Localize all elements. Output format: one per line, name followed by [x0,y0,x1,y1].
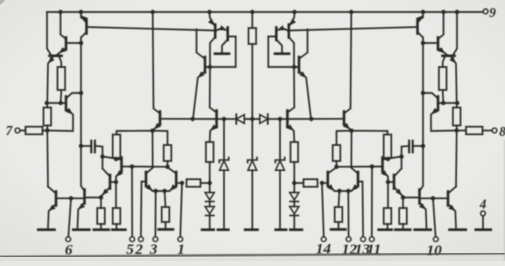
transistor Q17A base bar [215,111,218,128]
wire pin6 [68,198,71,236]
substrate bar Q15A [215,52,229,55]
wire pin8 to R3B [483,130,493,132]
transistor Q12B base bar [357,172,360,186]
junction Q13B base node [320,181,324,185]
diode D2A [205,207,214,215]
emitter arrow Q9A [117,171,123,176]
resistor R2A [44,108,52,126]
wire Q16A emitter [193,71,205,119]
emitter arrow Q2A [49,57,54,63]
wire Q9B emitter [383,171,389,208]
transistor Q9B base bar [381,158,384,172]
wire Q7B base to node [403,197,419,199]
capacitor C1B [412,141,414,153]
wire Q6B collector riser [455,131,458,187]
wire Q9A emitter [116,171,122,208]
scan smudge right edge [504,140,505,261]
transistor Q6B base bar [447,192,450,206]
junction base rail right B [441,101,445,105]
transistor Q7A base bar [83,190,86,204]
wire R9A right [201,182,210,184]
terminal pin 10 [433,237,438,242]
emitter arrow Q7B [420,204,426,209]
wire Q12B base to pin13 [359,182,364,237]
junction Q9A emitter / Q8A base [114,180,118,184]
wire R3A to node [43,130,48,132]
wire Q15B collector [276,40,282,53]
emitter arrow Q8B [396,189,402,195]
wire diode bus right [268,118,280,120]
wire Q4A emitter to rail [81,17,86,23]
wire pin14 [322,183,324,237]
wire Q17A base out [217,118,224,120]
wire Q15A collector [222,40,228,53]
junction Q11B emitter tap [309,117,313,121]
transistor Q2B shared base bar [443,54,455,57]
wire D2B to ground [293,216,295,229]
emitter arrow Q4A [82,16,88,21]
junction pin7 node A [45,128,49,132]
junction rail Q14A [207,10,211,14]
wire R7A bottom [167,161,169,167]
junction diode stack top A [208,181,212,185]
wire Q14A collector [210,37,215,67]
junction R5B bottom node [386,157,390,161]
terminal pin 6 [66,237,71,242]
transistor Q3B base bar [437,38,440,50]
ground bar center [245,228,257,231]
resistor R5A [113,135,121,159]
terminal pin 9 [483,9,488,14]
wire Q7A emitter [78,203,85,229]
transistor Q9A base bar [120,158,123,172]
resistor R8B [335,207,343,222]
diode D4 (points right) [260,115,268,124]
svg-text:9: 9 [489,5,496,20]
transistor Q17B base bar [286,111,289,128]
junction C1B right branch [399,154,403,158]
terminal pin 14 [321,237,326,242]
terminal pin 2 [139,237,144,242]
wire R2A top [46,103,48,108]
junction center diode bus [250,117,254,121]
terminal pin 7 [15,128,20,133]
junction rail Q14B [292,10,296,14]
scan speck top-left corner [0,0,5,5]
terminal pin 11 [369,237,374,242]
wire R4B top [402,198,404,209]
emitter arrow Q13A [170,185,176,191]
junction Q9B emitter / Q8B base [386,180,390,184]
resistor R7B [333,145,341,161]
emitter arrow Q3A [60,48,66,53]
wire R6B bottom [387,224,389,228]
ground bar R8B [331,228,345,231]
junction R8B tap [337,189,341,193]
emitter arrow Q9B [382,171,388,176]
wire Q4A base rail (long) [87,27,215,31]
wire node81 B upper [422,12,424,18]
junction x81 y93 B [421,91,425,95]
wire R4A bottom [100,224,102,228]
junction Q10B emitter node [349,129,353,133]
wire stack top B [293,183,295,193]
junction C1A right branch [100,154,104,158]
transistor Q8A base bar [109,175,112,189]
wire Q3B emitter [438,48,447,54]
resistor R9A [187,179,201,187]
wire C1A node to R5A bottom [103,157,117,159]
wire Q6A collector diag [48,187,56,194]
wire Q13A emitter [170,185,177,191]
emitter arrow Q17B [287,125,293,130]
wire Z1A top [223,119,225,159]
wire Q13A collector [168,167,177,174]
wire Q3B base to node [423,42,438,44]
emitter arrow Q12A [146,185,152,191]
junction pin7 node B [455,128,459,132]
wire diode bus left [224,118,236,120]
junction x81 cap node A [79,144,83,148]
transistor Q3A base bar [65,38,68,50]
wire Q6A-Q7A base link [57,197,84,199]
ground bar R6B [379,228,392,231]
resistor R2B [453,108,461,126]
emitter arrow Q3B [439,48,445,53]
junction Q10A emitter node [150,129,154,133]
wire C1B left [414,145,423,147]
zener Z2 (center) [248,157,257,162]
junction rail Q3B [441,10,445,14]
resistor R3B (pin8 series) [466,127,483,135]
wire Q8A base [111,181,117,183]
wire Q12B emitter [352,185,359,191]
wire pin3 [154,191,156,237]
resistor R10A [206,142,214,162]
resistor R8A [162,207,170,222]
emitter arrow Q15A [220,26,226,30]
wire C1A left [81,145,90,147]
diode D3 (points left) [236,115,244,124]
wire Z1A bottom [223,170,225,228]
transistor Q14A base bar [214,25,217,38]
wire diode bus center [244,118,259,120]
junction Q7A base node [99,195,103,199]
wire Q13A base [177,182,182,184]
emitter arrow Q5B [432,109,438,114]
wire Q15A emitter [216,28,227,30]
wire Q5A base rail [47,102,66,104]
wire center zener top [251,119,253,159]
wire y131 bus A [117,131,168,145]
wire Q17B base out [280,118,287,120]
junction rail Q10B [349,10,353,14]
emitter arrow Q12B [352,185,358,191]
junction rail x81 A [79,10,83,14]
transistor Q15A base bar [226,28,229,41]
resistor R3A (pin7 series) [26,127,43,135]
wire Q6B collector diag [448,187,456,194]
wire Q5A emitter [47,109,73,132]
wire Q10A base bus y119 [161,118,217,120]
wire Q17B collector [288,67,295,112]
junction R7A bottom [165,165,169,169]
wire Q3A base to node [67,42,82,44]
transistor Q5B base bar [437,97,440,111]
junction pin6 tap [69,196,73,200]
wire Q3A collector [61,12,67,39]
wire Q9A collector diag [116,158,122,161]
wire pin10 [433,198,436,236]
wire Q6A emitter [48,204,56,228]
wire node81 A upper [80,12,82,18]
wire Q8B emitter [394,187,402,195]
terminal pin 5 [130,237,135,242]
resistor R5B [384,135,392,159]
junction rail Q3A [58,10,62,14]
wire Q12A emitter [146,185,153,191]
wire center column mid [251,44,253,119]
junction Q7B base node [401,195,405,199]
emitter arrow Q2B [450,57,455,63]
emitter arrow Q16B [300,72,306,77]
emitter arrow Q17A [211,125,217,130]
junction base rail left A [45,101,49,105]
wire Q8B collector diag [394,169,402,177]
scan page-edge dark line along bottom [0,253,505,256]
wire R9B right [294,182,303,184]
wire C1B node to R5B bottom [388,157,402,159]
wire Q13B base [322,182,327,184]
emitter arrow Q14A [209,19,214,25]
wire Q6A collector riser [46,131,49,187]
wire R7B bottom [336,161,338,167]
junction R5A bottom node [114,157,118,161]
wire R10A bottom [209,162,211,183]
wire V+ rail drop to Q2A pair [47,12,51,54]
emitter arrow Q13B [328,185,334,191]
wire Q16A collector riser [197,29,205,58]
ground bar stack B [290,228,302,231]
terminal pin 12 [346,237,351,242]
wire R2B top [456,103,458,108]
capacitor C1A [90,141,92,153]
wire R8A bottom [165,222,167,228]
substrate bar Q15B [275,52,289,55]
wire R2B bottom [456,126,458,131]
ground bar Z1A [218,228,228,231]
resistor R7A [164,145,172,161]
ground bar Q7A emitter [73,228,89,231]
wire Q10A collector [153,12,160,114]
junction Q11A emitter tap [191,117,195,121]
transistor Q4A base bar [85,21,88,34]
resistor R9B [304,179,318,187]
resistor R6B [384,208,392,224]
emitter arrow Q5A [66,109,72,114]
junction R7B bottom [334,165,338,169]
transistor Q13B base bar [326,172,329,186]
ground bar R8A [159,228,173,231]
diode D1A [205,193,214,201]
wire Q8A emitter [102,187,110,195]
wire R2A bottom [46,126,48,131]
junction pin12 tap [346,189,350,193]
scan light band below page edge [0,256,505,261]
wire pin11 [371,167,373,237]
junction mirror node B [292,65,296,69]
wire Q10B base bus y119 [288,118,344,120]
wire Q14B emitter from rail [290,12,295,26]
zener Z1B [275,157,284,162]
wire emitter link A [153,190,170,192]
wire Q9B collector diag [383,158,389,161]
junction rail center [250,10,254,14]
wire between D1B D2B [293,202,295,207]
wire Q5A collector [66,93,81,99]
diode D2B [290,207,299,215]
wire center zener bottom [251,170,253,228]
junction diode bus B [278,117,282,121]
wire Q12A collector [146,168,153,174]
transistor Q5A base bar [65,97,68,111]
wire Q10A emitter [154,124,160,130]
wire pin1 [180,183,182,237]
wire Q13B collector [328,167,337,174]
wire Q17B emitter [287,126,294,143]
wire Q6B emitter [448,204,456,228]
junction x81 y93 A [79,91,83,95]
transistor Q2A shared base bar [50,54,62,57]
wire y131 bus B [337,131,388,145]
wire Q14B collector [289,37,294,67]
wire node81 B mid [422,38,424,147]
wire Q9A base bus [123,166,168,168]
emitter arrow Q6A [49,205,55,210]
wire R8B bottom [338,222,340,228]
terminal pin 4 [481,211,486,216]
wire Q15A base loop [206,37,236,68]
resistor R4B [399,208,407,224]
wire R4B bottom [402,224,404,228]
transistor Q12A base bar [145,172,148,186]
junction pin10 tap [431,196,435,200]
emitter arrow Q4B [416,16,422,21]
wire Q5B emitter [431,109,457,132]
wire Q13B emitter [328,185,335,191]
transistor Q16B base bar [298,57,301,73]
wire Q10B emitter [344,124,350,130]
wire Q2B lower collector to R1B [443,58,445,68]
wire Q2B lower emitter [452,58,457,104]
resistor R11 (center) [249,28,257,44]
wire Q17A emitter [210,126,217,143]
svg-text:4: 4 [479,197,487,212]
wire R1A to base rail [60,90,63,103]
wire Q4B emitter to rail [418,17,423,23]
transistor Q13A base bar [175,172,178,186]
wire center column top [251,12,253,28]
transistor Q6A base bar [55,192,58,206]
wire Q14A emitter from rail [210,12,215,26]
transistor Q10A base bar [159,112,162,125]
resistor R1A [58,67,66,90]
resistor R10B [291,142,299,162]
ground bar R4B [395,228,410,231]
wire Q3A emitter [58,48,67,54]
wire R8A top [164,191,167,207]
ground bar pin 4 [476,228,491,231]
wire R10B bottom [293,162,295,183]
wire Q2A lower emitter [47,58,52,104]
wire R8B top [338,191,341,207]
resistor R6A [113,208,121,224]
resistor R1B [439,67,447,90]
emitter arrow Q6B [449,205,455,210]
emitter arrow Q7A [79,204,85,209]
wire Q7B emitter [420,203,427,229]
wire pin12 [347,191,349,237]
junction diode bus A [222,117,226,121]
emitter arrow Q8A [103,189,109,195]
wire pin5 [131,167,133,237]
emitter arrow Q14B [290,19,295,25]
wire Q7B collector diag [420,146,424,191]
wire x153 drop A [152,131,154,167]
junction x81 cap node B [421,144,425,148]
wire C1A right [96,146,103,169]
junction pin11 tap [370,164,374,168]
junction base rail right A [59,101,63,105]
node Q3B base junction [421,41,425,45]
wire Q16B collector riser [300,29,308,58]
wire Q12B collector [351,168,358,174]
wire Q8B base [388,181,394,183]
emitter arrow Q10A [155,123,161,129]
wire Q10B collector [344,12,351,114]
wire Z1B top [279,119,281,159]
wire Q5B base rail [439,102,458,104]
wire between D1A D2A [209,202,211,207]
wire C1B right [402,146,409,169]
wire R6A bottom [116,224,118,228]
junction diode stack top B [292,181,296,185]
terminal pin 3 [153,237,158,242]
node Q3A base junction [79,41,83,45]
wire V+ rail drop to Q2B pair [454,12,458,54]
junction pin3 tap [154,189,158,193]
wire Q15B emitter [277,28,288,30]
wire emitter link B [335,190,352,192]
emitter arrow Q16A [198,72,204,77]
wire Q8A collector diag [103,169,111,177]
wire Q12A base to pin2 [141,182,146,237]
wire pin7 to R3A [20,130,26,132]
transistor Q16A base bar [204,57,207,73]
ground bar stack A [202,228,214,231]
emitter arrow Q15B [278,26,284,30]
wire Q4A collector [81,32,87,38]
resistor R4A [97,208,105,224]
wire Q17A collector [210,67,217,112]
wire Q7A collector diag [81,146,85,191]
wire Q4B collector [418,32,424,38]
transistor Q8B base bar [393,175,396,189]
wire R3B to node [457,130,466,132]
wire R1B to base rail [442,90,445,103]
junction pin5 tap [130,164,134,168]
junction base rail left B [455,101,459,105]
